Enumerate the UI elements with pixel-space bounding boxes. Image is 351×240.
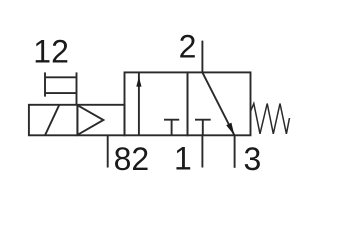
pilot port 12 symbol left vertical <box>44 72 46 96</box>
pilot port 12 symbol right vertical / stem <box>76 72 78 104</box>
blocked port T (left square) <box>164 120 179 136</box>
port 3 stub <box>234 135 236 168</box>
svg-text:82: 82 <box>114 141 150 177</box>
pilot port 12 symbol bottom rung <box>45 92 77 94</box>
svg-text:2: 2 <box>179 28 197 64</box>
solenoid box <box>29 105 125 136</box>
blocked port T (right square, port 1 closed) <box>195 120 211 136</box>
flow path arrow line (left square, pass 1->2) <box>138 72 140 135</box>
port 2 line <box>201 41 203 73</box>
arrowhead up (left square flow path) <box>136 77 141 87</box>
svg-text:1: 1 <box>174 141 192 177</box>
port 82 stub <box>107 135 109 167</box>
solenoid box divider <box>76 105 78 136</box>
svg-text:12: 12 <box>33 34 69 70</box>
pilot amplifier triangle <box>77 105 103 135</box>
solenoid coil slash <box>45 105 59 135</box>
valve body left square <box>125 72 188 135</box>
valve body right square <box>188 72 251 135</box>
arrowhead on diagonal 2->3 <box>226 123 234 136</box>
pilot port 12 symbol top rung <box>45 76 77 78</box>
svg-text:3: 3 <box>244 141 262 177</box>
port 1 stub <box>201 135 203 167</box>
return spring <box>250 104 289 134</box>
flow path diagonal 2->3 (right square) <box>202 72 234 135</box>
